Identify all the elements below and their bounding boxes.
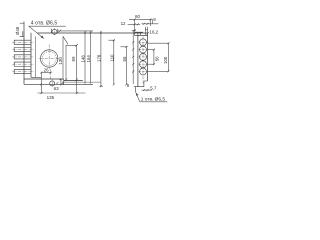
bottom edge front view left part bbox=[24, 78, 64, 80]
channel corner slashes bbox=[75, 44, 78, 47]
dim 60 ticks bbox=[134, 18, 136, 20]
pitch dim line bbox=[132, 31, 134, 84]
dim 5,7 ticks bbox=[143, 89, 145, 91]
dim 135 ticks bbox=[41, 92, 43, 94]
channel left line bbox=[65, 45, 67, 80]
svg-text:56: 56 bbox=[155, 56, 160, 61]
strip holes horizontal dashes bbox=[139, 42, 148, 71]
bottom hole centerline bbox=[51, 79, 53, 87]
big circle crosshair vertical bbox=[48, 45, 50, 69]
top hole tab sides bbox=[50, 29, 52, 33]
upper dim line bbox=[58, 30, 93, 32]
fin 3 bbox=[14, 55, 31, 59]
long bottom line bbox=[24, 83, 93, 85]
vertical dim line 110 bbox=[113, 40, 115, 84]
body left edge bbox=[23, 22, 25, 85]
bottom note arrowhead bbox=[136, 93, 139, 96]
slash near bottom hole bbox=[56, 82, 58, 84]
dim 26 line bbox=[41, 72, 51, 74]
svg-text:130: 130 bbox=[58, 57, 63, 65]
fin 4 bbox=[14, 62, 31, 66]
vertical dim line 164 bbox=[90, 31, 92, 84]
vertical dim line 55 bbox=[125, 47, 127, 85]
55 top ext bbox=[121, 46, 128, 48]
small ext lines near hole bbox=[60, 80, 62, 85]
svg-text:178: 178 bbox=[97, 54, 102, 62]
plate edge line bbox=[34, 37, 36, 78]
bottom note underline bbox=[140, 101, 168, 103]
bottom slashes of vertical dims bbox=[100, 85, 102, 87]
strip bottom left step bbox=[135, 87, 137, 93]
fin 2 bbox=[14, 48, 31, 52]
svg-text:100: 100 bbox=[163, 56, 168, 64]
bottom edge right part bbox=[64, 79, 83, 81]
centerline to bottom hole bbox=[49, 69, 51, 79]
top hole bbox=[52, 29, 57, 34]
vertical dim line 146 bbox=[84, 31, 86, 84]
top edge long line bbox=[38, 32, 148, 34]
svg-text:16,2: 16,2 bbox=[150, 29, 159, 34]
dim 100 corner slashes bbox=[168, 42, 170, 44]
lower flange line bbox=[64, 81, 101, 83]
big circle inner textured bbox=[42, 52, 56, 66]
svg-text:1 отв. Ø6,5: 1 отв. Ø6,5 bbox=[141, 97, 166, 103]
strip hole 3 bbox=[140, 53, 147, 60]
fin 1 bbox=[14, 40, 31, 44]
top tick bbox=[20, 22, 24, 24]
strip hole 1 bbox=[140, 39, 147, 46]
tick on upper dim bbox=[59, 30, 62, 33]
dim 100 line bbox=[168, 43, 170, 71]
bottom hole bbox=[50, 81, 55, 86]
dim 12 line bbox=[128, 23, 141, 25]
strip bottom right step bbox=[134, 81, 148, 87]
strip top edge bbox=[135, 34, 148, 36]
pitch ticks bbox=[132, 41, 134, 43]
vertical dim line 178 bbox=[100, 31, 102, 86]
right top tab bbox=[145, 29, 147, 31]
strip hole 2 bbox=[140, 46, 147, 53]
leader for bottom note bbox=[136, 93, 140, 102]
flange line left view bbox=[31, 76, 41, 78]
dim 130 vertical line bbox=[62, 37, 64, 79]
svg-text:63: 63 bbox=[54, 86, 60, 91]
fin 5 bbox=[14, 69, 31, 73]
top tab of strip bbox=[135, 32, 143, 35]
svg-text:4 отв. Ø6,5: 4 отв. Ø6,5 bbox=[31, 21, 58, 27]
top slashes of vertical dims bbox=[84, 32, 86, 34]
dim 56 ticks bbox=[153, 49, 155, 51]
channel top cap bbox=[66, 44, 77, 46]
dim 56 line bbox=[153, 50, 155, 65]
strip hole 4 bbox=[140, 61, 147, 68]
leader arrowhead bbox=[41, 35, 44, 38]
dim 60 line bbox=[129, 18, 152, 20]
top tab bbox=[20, 31, 24, 36]
fin centerlines (dash-dot) bbox=[12, 42, 33, 71]
body right edge bbox=[30, 33, 32, 78]
ext line hole1 to 100 dim bbox=[148, 42, 169, 44]
leader note underline bbox=[29, 25, 66, 27]
channel top-left slash bbox=[63, 36, 68, 44]
dim 63 ticks bbox=[40, 83, 42, 85]
ext line hole5 to 100 dim bbox=[148, 70, 169, 72]
channel right line bbox=[76, 45, 78, 93]
big circle crosshair horizontal bbox=[39, 58, 59, 60]
dim 16,2 line bbox=[142, 23, 159, 25]
svg-text:135: 135 bbox=[47, 95, 55, 100]
dim 135 line bbox=[38, 92, 86, 94]
strip right edge bbox=[147, 33, 149, 81]
110 top ext bbox=[109, 39, 115, 41]
top hole centerline bbox=[54, 28, 56, 35]
svg-text:146: 146 bbox=[81, 55, 86, 63]
dim 5,7 line bbox=[142, 89, 152, 91]
svg-text:12: 12 bbox=[121, 21, 126, 26]
strip hole 5 bbox=[140, 68, 147, 75]
svg-text:Ø48: Ø48 bbox=[15, 26, 20, 35]
svg-text:164: 164 bbox=[86, 55, 91, 63]
dim 12 ticks bbox=[134, 23, 136, 25]
big circle outer bbox=[41, 50, 58, 67]
svg-text:26: 26 bbox=[44, 67, 50, 72]
dim 16,2 ticks bbox=[143, 23, 145, 25]
strip left edge bbox=[137, 35, 139, 86]
leader diagonal bbox=[29, 26, 44, 38]
dim 26 ticks bbox=[40, 72, 42, 74]
svg-text:110: 110 bbox=[109, 54, 114, 62]
dim 9 right ext bbox=[149, 19, 151, 26]
extension lines top bbox=[134, 19, 136, 32]
svg-text:89: 89 bbox=[71, 56, 76, 61]
strip hole centerline vertical bbox=[142, 37, 144, 84]
svg-text:55: 55 bbox=[122, 56, 127, 61]
dim 26 extension bbox=[40, 73, 42, 94]
svg-text:60: 60 bbox=[135, 14, 141, 19]
ext lines for 56 bbox=[148, 49, 155, 51]
